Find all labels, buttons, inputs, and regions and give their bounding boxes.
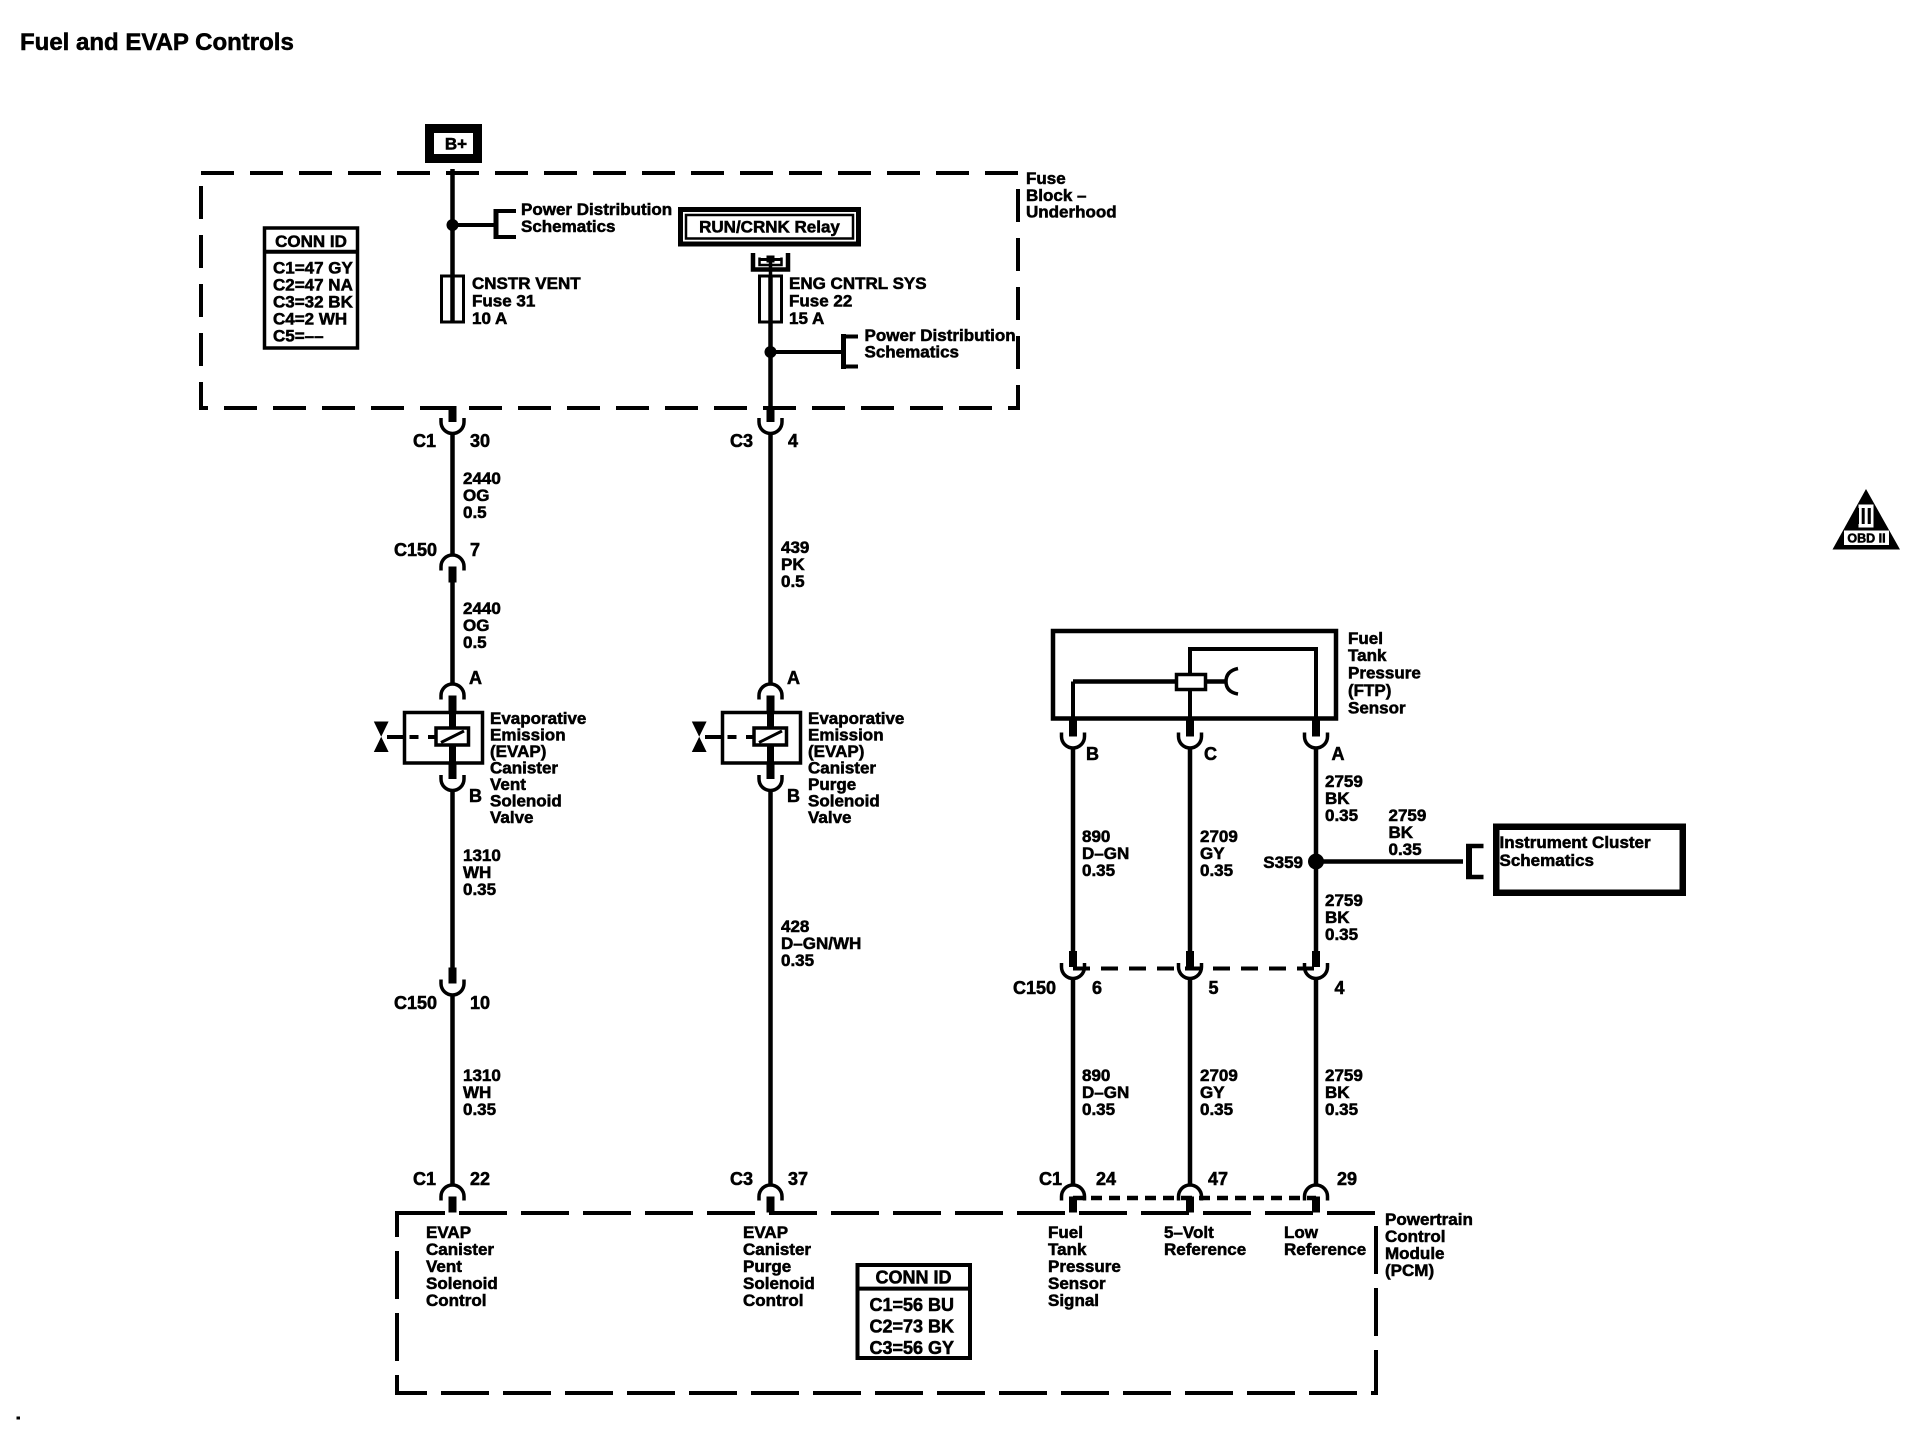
wire 439 PK segment <box>768 434 773 685</box>
FTP wiper fork symbol <box>1226 669 1238 695</box>
wire label 1310 WH 0.35 (lower) <box>463 1066 501 1119</box>
FTP pressure transducer element <box>1177 675 1206 690</box>
svg-text:0.35: 0.35 <box>1325 925 1358 944</box>
connector C150 pin 7 <box>394 540 480 583</box>
svg-text:0.5: 0.5 <box>463 503 487 522</box>
Fuel Tank Pressure (FTP) Sensor label <box>1348 629 1421 718</box>
svg-text:OBD II: OBD II <box>1847 532 1885 546</box>
CONN ID table (PCM) <box>858 1265 971 1358</box>
Fuel Tank Pressure (FTP) sensor box <box>1053 631 1336 719</box>
svg-text:(FTP): (FTP) <box>1348 681 1391 700</box>
svg-text:C3: C3 <box>730 431 753 451</box>
wire label 1310 WH 0.35 (upper) <box>463 846 501 899</box>
diagram title <box>20 29 294 56</box>
off-page connector bracket (Instrument Cluster) <box>1466 845 1484 879</box>
svg-text:22: 22 <box>470 1169 490 1189</box>
svg-text:(PCM): (PCM) <box>1385 1261 1434 1280</box>
connector C1 pin 29 (PCM) <box>1305 1169 1358 1213</box>
svg-text:47: 47 <box>1208 1169 1228 1189</box>
svg-text:Underhood: Underhood <box>1026 203 1117 222</box>
svg-text:S359: S359 <box>1263 853 1303 872</box>
Power Distribution Schematics label 1 <box>521 200 672 236</box>
svg-text:Valve: Valve <box>808 808 852 827</box>
connector C1 pin 24 (PCM) <box>1039 1169 1116 1213</box>
svg-text:29: 29 <box>1337 1169 1357 1189</box>
svg-text:C3: C3 <box>730 1169 753 1189</box>
off-page connector bracket (Power Distribution 1) <box>494 209 517 239</box>
svg-text:C150: C150 <box>1013 978 1056 998</box>
svg-text:C1: C1 <box>1039 1169 1062 1189</box>
svg-text:Schematics: Schematics <box>1500 851 1595 870</box>
svg-text:10 A: 10 A <box>472 309 507 328</box>
svg-text:Fuse 22: Fuse 22 <box>789 292 852 311</box>
CNSTR VENT Fuse 31 label <box>472 274 581 328</box>
wire 2440 OG segment 2 <box>450 583 455 685</box>
connector C150 pin 4 <box>1305 951 1345 998</box>
connector C1 pin 30 (fuse block output) <box>413 406 490 451</box>
connector pin A (purge valve) <box>759 668 800 712</box>
wire label 2759 BK 0.35 (above S359) <box>1325 772 1363 825</box>
svg-text:A: A <box>469 668 482 688</box>
Evaporative Emission (EVAP) Canister Vent Solenoid Valve label <box>490 709 586 827</box>
svg-text:10: 10 <box>470 993 490 1013</box>
svg-text:Fuel and EVAP Controls: Fuel and EVAP Controls <box>20 29 294 56</box>
svg-text:B+: B+ <box>445 135 467 154</box>
svg-text:0.35: 0.35 <box>781 951 814 970</box>
svg-text:C1=56 BU: C1=56 BU <box>870 1295 955 1315</box>
EVAP canister purge solenoid valve <box>723 696 801 779</box>
junction node on B+ feed <box>447 219 459 231</box>
svg-text:C3=56 GY: C3=56 GY <box>870 1338 955 1358</box>
wire 428 D-GN/WH segment <box>768 791 773 1186</box>
svg-text:0.35: 0.35 <box>463 1100 496 1119</box>
svg-text:A: A <box>787 668 800 688</box>
svg-text:Fuse 31: Fuse 31 <box>472 292 535 311</box>
wire S359 to instrument cluster <box>1316 859 1463 864</box>
svg-text:C: C <box>1204 744 1217 764</box>
PCM C1 connector dashed link <box>1073 1196 1316 1201</box>
svg-text:Tank: Tank <box>1348 646 1387 665</box>
CONN ID table (fuse block) <box>265 228 358 348</box>
PCM label Fuel Tank Pressure Sensor Signal <box>1048 1223 1121 1310</box>
PCM label 5-Volt Reference <box>1164 1223 1246 1259</box>
svg-text:15 A: 15 A <box>789 309 824 328</box>
Powertrain Control Module (PCM) label <box>1385 1210 1473 1280</box>
svg-text:Control: Control <box>426 1291 486 1310</box>
wire label 2759 BK 0.35 (lower) <box>1325 1066 1363 1119</box>
wire 2709 GY upper segment <box>1188 748 1193 951</box>
svg-text:0.35: 0.35 <box>1082 1100 1115 1119</box>
svg-text:24: 24 <box>1096 1169 1116 1189</box>
svg-text:0.35: 0.35 <box>1200 1100 1233 1119</box>
Instrument Cluster Schematics box <box>1496 827 1683 893</box>
connector C150 pin 6 <box>1013 951 1102 998</box>
svg-text:Signal: Signal <box>1048 1291 1099 1310</box>
PCM label EVAP Canister Vent Solenoid Control <box>426 1223 498 1310</box>
svg-text:0.35: 0.35 <box>463 880 496 899</box>
svg-text:CNSTR VENT: CNSTR VENT <box>472 274 581 293</box>
PCM label EVAP Canister Purge Solenoid Control <box>743 1223 815 1310</box>
svg-text:C1: C1 <box>413 1169 436 1189</box>
wire B+ to Fuse 31 <box>450 169 455 276</box>
svg-text:0.35: 0.35 <box>1325 1100 1358 1119</box>
svg-text:CONN ID: CONN ID <box>876 1268 952 1288</box>
svg-text:B: B <box>469 786 482 806</box>
Power Distribution Schematics label 2 <box>865 326 1016 362</box>
purge valve pneumatic port (hourglass) <box>692 722 723 753</box>
svg-text:C2=73 BK: C2=73 BK <box>870 1317 955 1337</box>
vent valve pneumatic port (hourglass) <box>374 722 405 753</box>
wire branch to Power Distribution reference 2 <box>771 350 842 354</box>
wire label 2709 GY 0.35 (lower) <box>1200 1066 1238 1119</box>
connector pin B (purge valve) <box>759 763 800 806</box>
wire label 890 D-GN 0.35 (upper) <box>1082 827 1129 880</box>
svg-text:B: B <box>787 786 800 806</box>
svg-text:Instrument Cluster: Instrument Cluster <box>1500 833 1652 852</box>
svg-text:C150: C150 <box>394 540 437 560</box>
wire 890 D-GN lower segment <box>1071 979 1076 1186</box>
connector pin B (FTP sensor) <box>1062 721 1100 765</box>
wire label 2709 GY 0.35 (upper) <box>1200 827 1238 880</box>
svg-text:Schematics: Schematics <box>521 217 616 236</box>
wire label 2759 BK 0.35 (branch) <box>1389 806 1427 859</box>
svg-text:Valve: Valve <box>490 808 534 827</box>
Powertrain Control Module dashed boundary box <box>397 1213 1376 1393</box>
svg-text:0.35: 0.35 <box>1082 861 1115 880</box>
wire label 2440 OG 0.5 (upper) <box>463 469 501 522</box>
connector pin C (FTP sensor) <box>1179 721 1218 765</box>
wire 1310 WH segment 1 <box>450 791 455 968</box>
wire label 2759 BK 0.35 (below S359) <box>1325 891 1363 944</box>
fuse CNSTR VENT Fuse 31 10A <box>442 276 464 322</box>
svg-text:0.35: 0.35 <box>1389 840 1422 859</box>
wire 890 D-GN upper segment <box>1071 748 1076 951</box>
svg-text:B: B <box>1086 744 1099 764</box>
connector pin A (vent valve) <box>441 668 482 712</box>
svg-text:Control: Control <box>743 1291 803 1310</box>
connector C1 pin 47 (PCM) <box>1179 1169 1229 1213</box>
svg-text:Reference: Reference <box>1164 1240 1246 1259</box>
connector C150 pin 5 <box>1179 951 1219 998</box>
wire 2759 BK lower segment <box>1314 979 1319 1186</box>
wire Fuse 22 to connector C3 <box>768 322 773 408</box>
svg-text:6: 6 <box>1092 978 1102 998</box>
junction node below Fuse 22 <box>765 346 777 358</box>
svg-text:CONN ID: CONN ID <box>275 232 347 251</box>
FTP sensor internal wiring <box>1073 647 1316 718</box>
svg-text:ENG CNTRL SYS: ENG CNTRL SYS <box>789 274 927 293</box>
connector pin B (vent valve) <box>441 763 482 806</box>
splice node S359 <box>1263 853 1324 872</box>
EVAP canister vent solenoid valve <box>405 696 483 779</box>
C150 in-line connector dashed link <box>1073 967 1316 971</box>
svg-text:30: 30 <box>470 431 490 451</box>
svg-text:7: 7 <box>470 540 480 560</box>
wire label 428 D-GN/WH 0.35 <box>781 917 861 970</box>
wire label 2440 OG 0.5 (lower) <box>463 599 501 652</box>
svg-text:C5=––: C5=–– <box>273 327 324 346</box>
svg-text:4: 4 <box>1335 978 1345 998</box>
wire 1310 WH segment 2 <box>450 995 455 1185</box>
connector C1 pin 22 (PCM) <box>413 1169 490 1213</box>
Fuse Block - Underhood dashed boundary box <box>201 173 1018 408</box>
relay output pin terminal symbol <box>753 253 788 277</box>
Fuse Block - Underhood label <box>1026 169 1117 222</box>
svg-text:4: 4 <box>788 431 798 451</box>
wire branch to Power Distribution reference <box>453 223 494 227</box>
wire 2759 BK upper segment <box>1314 748 1319 951</box>
wire 2709 GY lower segment <box>1188 979 1193 1186</box>
connector C150 pin 10 <box>394 968 490 1014</box>
svg-text:A: A <box>1332 744 1345 764</box>
fuse ENG CNTRL SYS Fuse 22 15A <box>760 276 782 322</box>
svg-text:Reference: Reference <box>1284 1240 1366 1259</box>
svg-text:Schematics: Schematics <box>865 343 960 362</box>
connector C3 pin 37 (PCM) <box>730 1169 808 1213</box>
off-page connector bracket (Power Distribution 2) <box>841 334 858 369</box>
ENG CNTRL SYS Fuse 22 label <box>789 274 927 328</box>
svg-text:5: 5 <box>1209 978 1219 998</box>
svg-text:C150: C150 <box>394 993 437 1013</box>
PCM label Low Reference <box>1284 1223 1366 1259</box>
wire label 890 D-GN 0.35 (lower) <box>1082 1066 1129 1119</box>
Evaporative Emission (EVAP) Canister Purge Solenoid Valve label <box>808 709 904 827</box>
wire 2440 OG segment 1 <box>450 434 455 556</box>
svg-text:C1: C1 <box>413 431 436 451</box>
battery feed B+ terminal box <box>430 129 478 159</box>
svg-text:RUN/CRNK Relay: RUN/CRNK Relay <box>699 218 840 237</box>
svg-text:Pressure: Pressure <box>1348 664 1421 683</box>
connector C3 pin 4 (fuse block output) <box>730 406 798 451</box>
OBD II marker triangle <box>1833 489 1901 550</box>
RUN/CRNK Relay box <box>681 210 859 245</box>
page corner mark <box>17 1417 21 1420</box>
svg-text:37: 37 <box>788 1169 808 1189</box>
svg-text:Sensor: Sensor <box>1348 699 1406 718</box>
svg-text:0.35: 0.35 <box>1200 861 1233 880</box>
connector pin A (FTP sensor) <box>1305 721 1345 765</box>
wire label 439 PK 0.5 <box>781 538 809 591</box>
svg-text:0.35: 0.35 <box>1325 806 1358 825</box>
svg-text:0.5: 0.5 <box>463 633 487 652</box>
svg-text:0.5: 0.5 <box>781 572 805 591</box>
